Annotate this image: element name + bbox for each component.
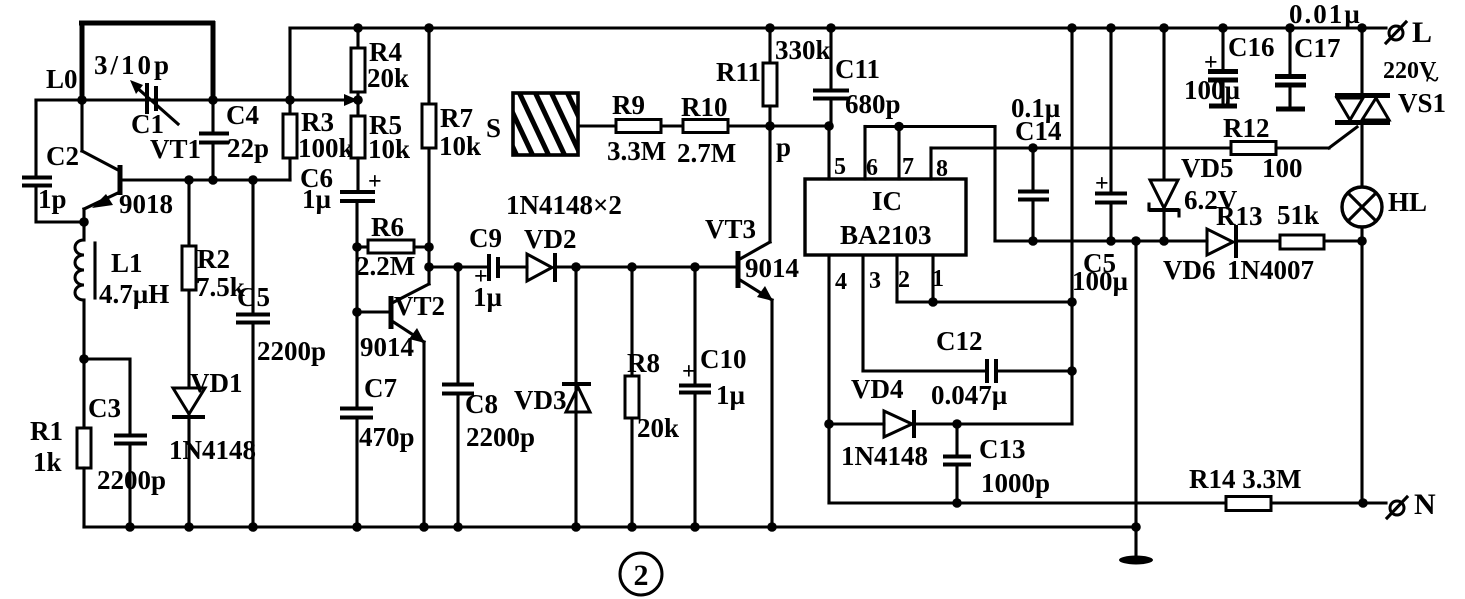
svg-text:R10: R10 bbox=[681, 92, 728, 122]
label 1N4148x2 bbox=[506, 190, 622, 220]
svg-text:1µ: 1µ bbox=[473, 282, 503, 312]
svg-text:C3: C3 bbox=[88, 393, 121, 423]
label VS1 bbox=[1398, 88, 1446, 118]
label C8 value 2200p bbox=[466, 422, 535, 452]
resistor R14 bbox=[1226, 497, 1271, 511]
label VD5 value 6.2V bbox=[1184, 185, 1238, 215]
pin 2 number bbox=[898, 267, 910, 293]
svg-text:VD6: VD6 bbox=[1163, 255, 1216, 285]
label C9 value 1u bbox=[473, 282, 503, 312]
label C13 value 1000p bbox=[981, 468, 1050, 498]
svg-text:51k: 51k bbox=[1277, 200, 1319, 230]
label C7 bbox=[364, 373, 397, 403]
resistor R13 bbox=[1280, 235, 1324, 249]
label C14 value 0.1u bbox=[1011, 93, 1061, 123]
svg-text:9014: 9014 bbox=[360, 332, 414, 362]
resistor R12 bbox=[1231, 127, 1357, 155]
svg-text:C17: C17 bbox=[1294, 33, 1341, 63]
svg-text:R7: R7 bbox=[440, 103, 473, 133]
label C2 value 1p bbox=[38, 184, 67, 214]
diode VD6 bbox=[1207, 225, 1236, 258]
ground column and symbol bbox=[1119, 241, 1153, 565]
label C1 bbox=[131, 109, 164, 139]
resistor R1 bbox=[77, 359, 91, 527]
svg-text:+: + bbox=[368, 169, 382, 195]
label C16 bbox=[1228, 32, 1275, 62]
label p node bbox=[776, 132, 791, 162]
svg-text:0.047µ: 0.047µ bbox=[931, 380, 1008, 410]
wire column R5-C6-C7 bbox=[355, 247, 358, 312]
label C17 value 0.01u bbox=[1289, 0, 1362, 29]
wire pin 3 row y=371 bbox=[863, 369, 1072, 372]
pin 7 lead bbox=[897, 127, 900, 180]
svg-text:L0: L0 bbox=[46, 64, 78, 94]
label C14 bbox=[1015, 116, 1062, 146]
pin 4 number bbox=[835, 269, 847, 295]
label R2 value 7.5k bbox=[196, 272, 245, 302]
inductor L1 bbox=[75, 222, 95, 359]
resistor R6 bbox=[357, 240, 429, 253]
svg-text:2: 2 bbox=[634, 559, 649, 592]
resistor R2 bbox=[182, 180, 196, 388]
trimmer capacitor C1 bbox=[130, 80, 178, 124]
svg-text:VS1: VS1 bbox=[1398, 88, 1446, 118]
label VD1 bbox=[190, 368, 243, 398]
svg-text:VD1: VD1 bbox=[190, 368, 243, 398]
wire p row y=126 bbox=[578, 124, 829, 127]
label C9 bbox=[469, 223, 502, 253]
svg-text:330k: 330k bbox=[775, 35, 831, 65]
label C16 value 100u bbox=[1184, 75, 1241, 105]
svg-text:VD5: VD5 bbox=[1181, 153, 1234, 183]
pin 8 number bbox=[936, 156, 948, 182]
diode VD4 bbox=[884, 410, 914, 438]
svg-text:VT3: VT3 bbox=[705, 214, 756, 244]
pin 5 number bbox=[834, 154, 846, 180]
pin 2 lead bbox=[895, 255, 898, 302]
svg-text:2.7M: 2.7M bbox=[677, 138, 736, 168]
terminal L bbox=[1386, 22, 1406, 43]
svg-text:2200p: 2200p bbox=[97, 465, 166, 495]
svg-text:C8: C8 bbox=[465, 389, 498, 419]
label C3 bbox=[88, 393, 121, 423]
label VT2 value 9014 bbox=[360, 332, 414, 362]
svg-text:100k: 100k bbox=[298, 133, 354, 163]
svg-text:4.7µH: 4.7µH bbox=[99, 279, 169, 309]
capacitor C13 bbox=[943, 424, 971, 503]
svg-text:20k: 20k bbox=[367, 63, 409, 93]
capacitor C5 left 2200p bbox=[236, 180, 270, 527]
label C12 value 0.047u bbox=[931, 380, 1008, 410]
label R5 value 10k bbox=[368, 134, 410, 164]
pin 3 number bbox=[869, 268, 881, 294]
svg-text:2200p: 2200p bbox=[257, 336, 326, 366]
label VD5 resistor value 100 bbox=[1262, 153, 1303, 183]
pin 6 number bbox=[866, 155, 878, 181]
label R7 bbox=[440, 103, 473, 133]
svg-text:C5: C5 bbox=[237, 282, 270, 312]
transistor VT1 bbox=[82, 100, 120, 222]
label R13 value 51k bbox=[1277, 200, 1319, 230]
capacitor C9 bbox=[474, 254, 498, 290]
svg-text:p: p bbox=[776, 132, 791, 162]
label VT1 bbox=[150, 134, 201, 164]
svg-text:3.3M: 3.3M bbox=[607, 136, 666, 166]
capacitor C14 bbox=[1018, 148, 1049, 241]
wire pin4 drop to N row bbox=[827, 424, 830, 503]
label R1 bbox=[30, 416, 63, 446]
svg-text:9014: 9014 bbox=[745, 253, 799, 283]
svg-text:100: 100 bbox=[1262, 153, 1303, 183]
label L bbox=[1412, 16, 1432, 49]
capacitor C17 bbox=[1275, 28, 1306, 109]
label C2 bbox=[46, 141, 79, 171]
node arrow into R4/R5 junction bbox=[344, 94, 358, 106]
svg-text:C11: C11 bbox=[835, 54, 880, 84]
label VT3 value 9014 bbox=[745, 253, 799, 283]
pin 7 number bbox=[902, 154, 914, 180]
svg-text:0.01µ: 0.01µ bbox=[1289, 0, 1362, 29]
junction dots middle columns bbox=[352, 121, 904, 317]
wire bottom ground rail bbox=[84, 525, 1136, 528]
svg-text:+: + bbox=[1204, 50, 1218, 76]
svg-text:1N4148×2: 1N4148×2 bbox=[506, 190, 622, 220]
svg-text:7: 7 bbox=[902, 154, 914, 180]
junction dots IC area bbox=[824, 143, 1368, 508]
svg-text:R12: R12 bbox=[1223, 113, 1270, 143]
svg-text:1p: 1p bbox=[38, 184, 67, 214]
svg-text:R2: R2 bbox=[197, 244, 230, 274]
svg-text:20k: 20k bbox=[637, 413, 679, 443]
wire right return column bbox=[1360, 241, 1363, 503]
label R4 bbox=[369, 37, 402, 67]
svg-text:100µ: 100µ bbox=[1072, 266, 1129, 296]
label R8 value 20k bbox=[637, 413, 679, 443]
capacitor C4 bbox=[199, 100, 229, 180]
label C1 value 3/10p bbox=[94, 50, 172, 80]
svg-text:C4: C4 bbox=[226, 100, 259, 130]
svg-text:C16: C16 bbox=[1228, 32, 1275, 62]
svg-text:L1: L1 bbox=[111, 248, 143, 278]
label R3 bbox=[301, 107, 334, 137]
svg-text:+: + bbox=[682, 359, 696, 385]
capacitor C6 bbox=[340, 169, 382, 247]
pin 5 lead bbox=[827, 126, 830, 179]
svg-text:3/10p: 3/10p bbox=[94, 50, 172, 80]
touch plate S hatched box bbox=[486, 90, 598, 158]
junction dots oscillator rows bbox=[77, 95, 363, 364]
wire vertical feedback column x=1072 bbox=[1070, 28, 1073, 424]
svg-text:1000p: 1000p bbox=[981, 468, 1050, 498]
label C3 value 2200p bbox=[97, 465, 166, 495]
label R9 value 3.3M bbox=[607, 136, 666, 166]
svg-text:IC: IC bbox=[872, 186, 902, 216]
svg-text:BA2103: BA2103 bbox=[840, 220, 932, 250]
resistor R4 bbox=[351, 28, 365, 100]
svg-text:R8: R8 bbox=[627, 348, 660, 378]
svg-text:VD3: VD3 bbox=[514, 385, 567, 415]
lamp HL bbox=[1342, 187, 1382, 241]
pin 3 lead bbox=[861, 255, 864, 371]
label R8 bbox=[627, 348, 660, 378]
resistor R3 bbox=[283, 114, 297, 158]
label C5 left bbox=[237, 282, 270, 312]
label C11 value 680p bbox=[845, 89, 901, 119]
svg-text:C13: C13 bbox=[979, 434, 1026, 464]
svg-text:VD2: VD2 bbox=[524, 224, 577, 254]
label R5 bbox=[369, 110, 402, 140]
diode VD2 bbox=[527, 253, 555, 282]
svg-text:9018: 9018 bbox=[119, 189, 173, 219]
capacitor C10 bbox=[679, 267, 711, 527]
transistor VT3 bbox=[738, 126, 773, 527]
label C5 right value 100u bbox=[1072, 266, 1129, 296]
label R12 bbox=[1223, 113, 1270, 143]
label C6 bbox=[300, 163, 333, 193]
wire N row y=503 bbox=[829, 501, 1386, 504]
svg-text:~: ~ bbox=[1426, 67, 1439, 93]
label C13 bbox=[979, 434, 1026, 464]
svg-text:HL: HL bbox=[1388, 187, 1427, 217]
capacitor C8 bbox=[442, 267, 474, 527]
wire collector node y=180 bbox=[120, 158, 290, 180]
wire top supply rail bbox=[290, 26, 1386, 29]
label VD1 value 1N4148 bbox=[169, 435, 256, 465]
svg-text:10k: 10k bbox=[439, 131, 481, 161]
triac VS1 bbox=[1335, 28, 1390, 187]
svg-text:C2: C2 bbox=[46, 141, 79, 171]
resistor R8 bbox=[625, 267, 639, 527]
label HL bbox=[1388, 187, 1427, 217]
svg-text:100µ: 100µ bbox=[1184, 75, 1241, 105]
svg-text:R9: R9 bbox=[612, 90, 645, 120]
label R2 bbox=[197, 244, 230, 274]
wire pins 6-7 to right drop bbox=[865, 127, 995, 242]
label R14 3.3M bbox=[1189, 464, 1301, 494]
svg-text:1k: 1k bbox=[33, 447, 62, 477]
svg-text:22p: 22p bbox=[227, 133, 269, 163]
svg-text:VT1: VT1 bbox=[150, 134, 201, 164]
label C8 bbox=[465, 389, 498, 419]
svg-text:2200p: 2200p bbox=[466, 422, 535, 452]
label mains 220V bbox=[1383, 58, 1439, 93]
svg-text:3: 3 bbox=[869, 268, 881, 294]
label VT3 bbox=[705, 214, 756, 244]
label C10 bbox=[700, 344, 747, 374]
label R3 value 100k bbox=[298, 133, 354, 163]
diode VD3 bbox=[562, 267, 591, 527]
svg-text:C14: C14 bbox=[1015, 116, 1062, 146]
svg-text:470p: 470p bbox=[359, 422, 415, 452]
resistor R10 bbox=[683, 120, 728, 133]
label R11 value 330k bbox=[775, 35, 831, 65]
label L0 bbox=[46, 64, 78, 94]
label C10 value 1u bbox=[716, 380, 746, 410]
label VD4 value 1N4148 bbox=[841, 441, 928, 471]
label R4 value 20k bbox=[367, 63, 409, 93]
zener diode VD5 bbox=[1149, 180, 1179, 216]
label C11 bbox=[835, 54, 880, 84]
shield box around C1 trimmer bbox=[79, 21, 215, 100]
diode VD1 bbox=[172, 388, 205, 527]
wire pin 4 row y=424 bbox=[829, 422, 1072, 425]
svg-text:8: 8 bbox=[936, 156, 948, 182]
label VT1 value 9018 bbox=[119, 189, 173, 219]
label VD5 bbox=[1181, 153, 1234, 183]
svg-text:S: S bbox=[486, 113, 501, 143]
capacitor C2 bbox=[22, 100, 84, 222]
svg-text:1µ: 1µ bbox=[302, 184, 332, 214]
label R9 bbox=[612, 90, 645, 120]
svg-text:10k: 10k bbox=[368, 134, 410, 164]
capacitor C5 right 100u bbox=[1095, 28, 1127, 241]
capacitor C11 bbox=[813, 28, 849, 126]
label L1 bbox=[111, 248, 143, 278]
svg-text:L: L bbox=[1412, 16, 1432, 49]
label R1 value 1k bbox=[33, 447, 62, 477]
figure number 2 bbox=[620, 553, 662, 595]
pin 1 number bbox=[932, 266, 944, 292]
terminal N bbox=[1387, 497, 1407, 518]
pin 4 lead bbox=[827, 255, 830, 424]
label VT2 bbox=[394, 291, 445, 321]
label C4 bbox=[226, 100, 259, 130]
label C5 right bbox=[1083, 248, 1116, 278]
svg-text:1: 1 bbox=[932, 266, 944, 292]
label C17 bbox=[1294, 33, 1341, 63]
label R7 value 10k bbox=[439, 131, 481, 161]
svg-text:1µ: 1µ bbox=[716, 380, 746, 410]
label VD6 bbox=[1163, 255, 1216, 285]
label IC bbox=[872, 186, 902, 216]
label R6 bbox=[371, 212, 404, 242]
label R13 bbox=[1216, 201, 1263, 231]
resistor R7 bbox=[422, 28, 436, 284]
label C12 bbox=[936, 326, 983, 356]
label N bbox=[1414, 488, 1436, 521]
svg-text:680p: 680p bbox=[845, 89, 901, 119]
junction dots supply row y=241 bbox=[1028, 236, 1367, 246]
label R10 value 2.7M bbox=[677, 138, 736, 168]
svg-text:VT2: VT2 bbox=[394, 291, 445, 321]
svg-text:5: 5 bbox=[834, 154, 846, 180]
op-amp IC U1 BA2103 box bbox=[805, 179, 966, 255]
wire supply row y=241 bbox=[995, 239, 1362, 242]
capacitor C7 bbox=[340, 312, 373, 527]
label C7 value 470p bbox=[359, 422, 415, 452]
label VD4 bbox=[851, 374, 904, 404]
wire trigger row y=148 from pin 8 to R12 bbox=[931, 146, 1231, 149]
wire pins 1-2 row y=302 bbox=[897, 300, 1072, 303]
resistor R5 bbox=[351, 100, 365, 190]
pin 8 lead bbox=[929, 148, 932, 179]
wire node row y=267 bbox=[429, 265, 738, 268]
svg-text:R11: R11 bbox=[716, 57, 761, 87]
svg-text:2: 2 bbox=[898, 267, 910, 293]
wire oscillator node y=100 bbox=[36, 98, 356, 101]
svg-text:4: 4 bbox=[835, 269, 847, 295]
label VD6 value 1N4007 bbox=[1227, 255, 1314, 285]
label C5 value 2200p bbox=[257, 336, 326, 366]
svg-text:VD4: VD4 bbox=[851, 374, 904, 404]
capacitor C3 bbox=[84, 359, 147, 527]
junction dots top rail bbox=[353, 23, 1367, 33]
svg-text:6: 6 bbox=[866, 155, 878, 181]
svg-text:R1: R1 bbox=[30, 416, 63, 446]
svg-text:1N4148: 1N4148 bbox=[841, 441, 928, 471]
capacitor C12 bbox=[987, 359, 996, 383]
svg-text:1N4148: 1N4148 bbox=[169, 435, 256, 465]
resistor R9 bbox=[616, 120, 661, 133]
svg-text:2.2M: 2.2M bbox=[356, 251, 415, 281]
wire zener column x=1164 bbox=[1162, 28, 1165, 241]
svg-text:R14 3.3M: R14 3.3M bbox=[1189, 464, 1301, 494]
svg-text:1N4007: 1N4007 bbox=[1227, 255, 1314, 285]
label C6 value 1u bbox=[302, 184, 332, 214]
pin 1 lead bbox=[931, 255, 934, 302]
label R6 value 2.2M bbox=[356, 251, 415, 281]
svg-text:C12: C12 bbox=[936, 326, 983, 356]
svg-text:N: N bbox=[1414, 488, 1436, 521]
label R11 bbox=[716, 57, 761, 87]
label R10 bbox=[681, 92, 728, 122]
svg-text:C10: C10 bbox=[700, 344, 747, 374]
label C4 value 22p bbox=[227, 133, 269, 163]
junction dots bottom rail bbox=[125, 522, 1141, 532]
pin 6 lead bbox=[863, 127, 866, 180]
resistor R11 bbox=[763, 28, 777, 126]
transistor VT2 bbox=[357, 284, 429, 527]
svg-text:+: + bbox=[1095, 171, 1109, 197]
wire left drop from top rail to R3 bbox=[288, 28, 291, 114]
label S bbox=[486, 113, 501, 143]
svg-text:C9: C9 bbox=[469, 223, 502, 253]
svg-text:R6: R6 bbox=[371, 212, 404, 242]
svg-text:R13: R13 bbox=[1216, 201, 1263, 231]
label VD2 bbox=[524, 224, 577, 254]
capacitor C16 bbox=[1204, 28, 1238, 106]
label BA2103 bbox=[840, 220, 932, 250]
svg-text:C7: C7 bbox=[364, 373, 397, 403]
label L1 value 4.7uH bbox=[99, 279, 169, 309]
label VD3 bbox=[514, 385, 567, 415]
